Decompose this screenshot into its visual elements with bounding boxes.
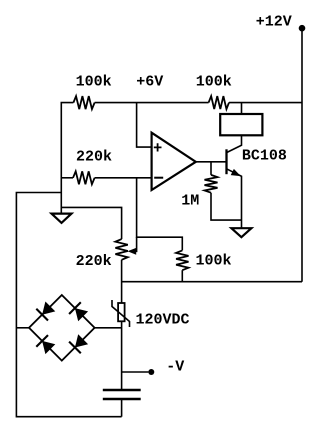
svg-text:-V: -V bbox=[166, 359, 184, 376]
svg-text:220k: 220k bbox=[76, 148, 112, 165]
svg-text:+12V: +12V bbox=[256, 14, 292, 31]
svg-text:100k: 100k bbox=[196, 74, 232, 91]
svg-text:120VDC: 120VDC bbox=[136, 312, 190, 329]
svg-text:220k: 220k bbox=[76, 253, 112, 270]
svg-text:+6V: +6V bbox=[136, 74, 163, 91]
svg-text:BC108: BC108 bbox=[242, 148, 287, 165]
svg-text:100k: 100k bbox=[76, 74, 112, 91]
svg-text:100k: 100k bbox=[196, 253, 232, 270]
svg-text:1M: 1M bbox=[181, 192, 199, 209]
